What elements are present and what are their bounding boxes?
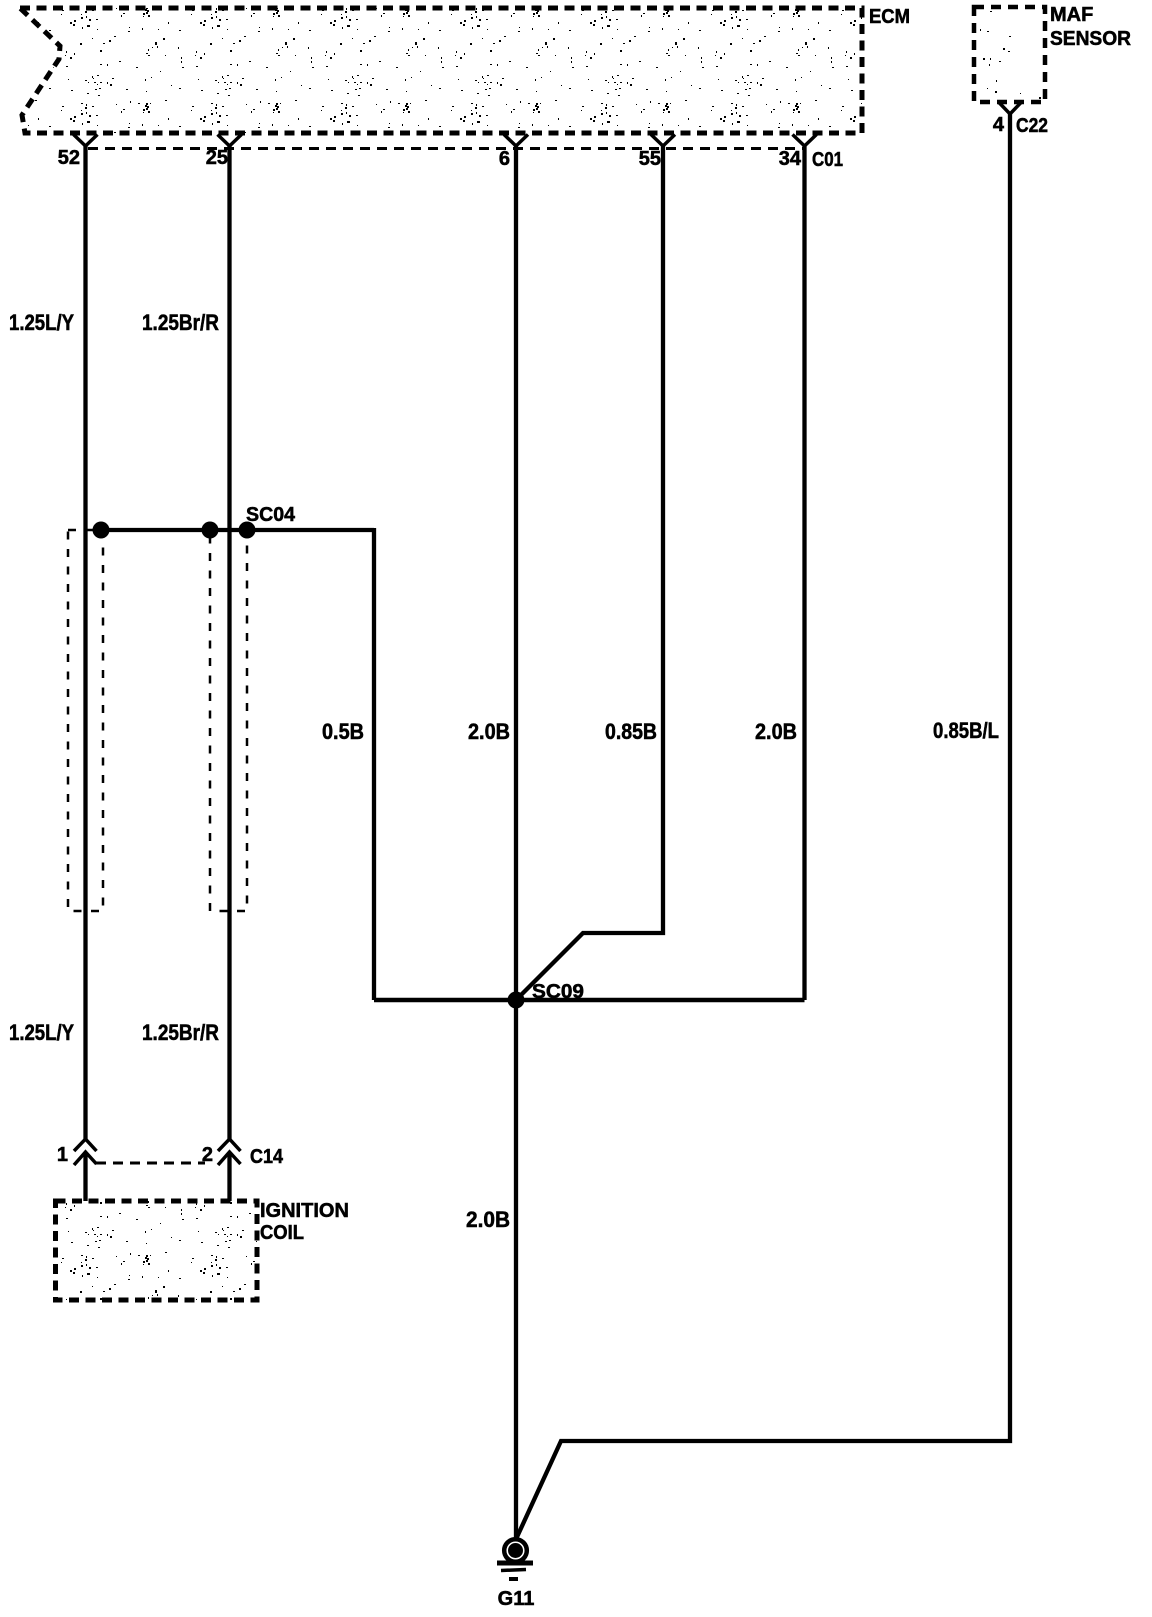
wire 0.85B from ECM pin 55 to SC09 (516, 146, 663, 1000)
splice SC09 bus wire (374, 998, 805, 1003)
pin 52 connector (74, 135, 98, 147)
svg-text:4: 4 (993, 114, 1005, 136)
wire 1.25Br/R from ECM pin 25 (227, 146, 231, 1140)
svg-text:1.25L/Y: 1.25L/Y (9, 1020, 74, 1045)
wire 1.25L/Y from ECM pin 52 (83, 146, 87, 1140)
ignition coil box (56, 1201, 258, 1300)
junction dot SC09 (508, 992, 525, 1009)
junction dot SC04 (239, 522, 256, 539)
svg-text:G11: G11 (498, 1588, 535, 1610)
connector C01 dashed line (88, 147, 806, 150)
svg-text:2.0B: 2.0B (755, 719, 797, 744)
svg-text:C01: C01 (812, 149, 843, 171)
svg-text:34: 34 (779, 148, 802, 170)
MAF sensor box (974, 7, 1045, 102)
ground bar 2 (501, 1570, 526, 1571)
wire 2.0B from ECM pin 6 to ground (514, 146, 518, 1538)
pin 2 female connector (218, 1139, 241, 1151)
svg-text:C14: C14 (250, 1146, 284, 1168)
svg-text:2: 2 (202, 1144, 213, 1166)
ground bar 3 (509, 1577, 518, 1581)
pin 6 connector (504, 135, 528, 147)
junction dot shield 2 left (202, 522, 219, 539)
svg-text:55: 55 (639, 148, 661, 170)
svg-text:SC09: SC09 (532, 981, 584, 1003)
svg-text:1: 1 (57, 1144, 68, 1166)
svg-text:25: 25 (206, 147, 228, 169)
shield around wire 52 (68, 530, 103, 911)
svg-text:ECM: ECM (869, 6, 910, 28)
pin 4 connector (MAF) (999, 103, 1021, 115)
pin 25 connector (218, 135, 242, 147)
svg-text:6: 6 (499, 148, 510, 170)
svg-text:SENSOR: SENSOR (1050, 28, 1132, 50)
shield around wire 25 (210, 530, 247, 911)
wire 2.0B from ECM pin 34 to SC09 (802, 146, 806, 1000)
ground bar 1 (497, 1561, 533, 1566)
svg-text:0.85B: 0.85B (605, 719, 657, 744)
svg-text:SC04: SC04 (246, 504, 296, 526)
pin 1 female connector (74, 1139, 97, 1151)
svg-text:COIL: COIL (260, 1222, 304, 1244)
svg-text:0.5B: 0.5B (322, 719, 364, 744)
wire 0.85B/L from MAF pin 4 to ground (517, 114, 1010, 1537)
svg-text:C22: C22 (1016, 115, 1048, 137)
svg-text:0.85B/L: 0.85B/L (933, 718, 999, 743)
svg-text:2.0B: 2.0B (468, 719, 510, 744)
svg-text:IGNITION: IGNITION (260, 1200, 349, 1222)
splice SC04 bus wire (101, 528, 374, 532)
svg-text:MAF: MAF (1050, 4, 1093, 26)
wire 0.5B from SC04 to SC09 (372, 528, 376, 1000)
pin 2 stem (227, 1152, 231, 1201)
svg-text:1.25L/Y: 1.25L/Y (9, 310, 74, 335)
pin 55 connector (651, 135, 675, 147)
junction dot shield 1 (93, 522, 110, 539)
svg-text:1.25Br/R: 1.25Br/R (142, 1020, 219, 1045)
pin 1 stem (83, 1152, 87, 1201)
pin 34 connector (793, 135, 817, 147)
pin 1 male connector (74, 1152, 97, 1165)
ground G11 symbol (504, 1539, 527, 1562)
svg-text:2.0B: 2.0B (466, 1207, 510, 1232)
pin 2 male connector (218, 1152, 241, 1165)
ECM module box (20, 8, 862, 133)
connector C14 dashed line (96, 1162, 205, 1165)
svg-text:1.25Br/R: 1.25Br/R (142, 310, 219, 335)
svg-text:52: 52 (58, 147, 80, 169)
